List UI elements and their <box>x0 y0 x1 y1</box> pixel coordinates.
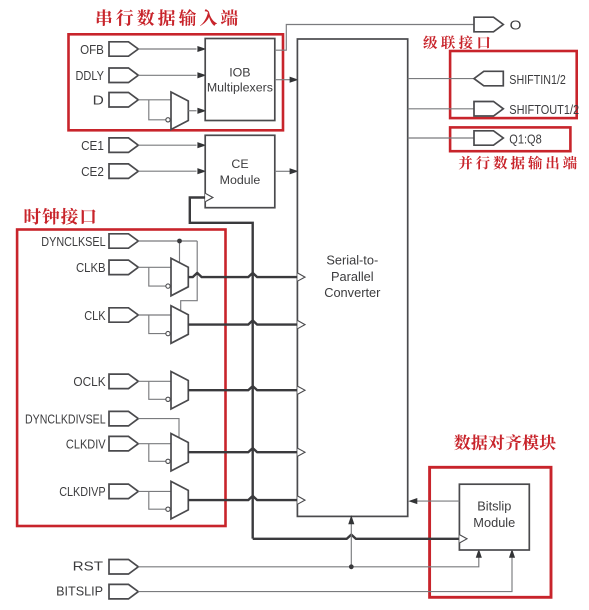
svg-text:RST: RST <box>73 559 103 574</box>
svg-text:Parallel: Parallel <box>331 269 374 284</box>
svg-text:Converter: Converter <box>324 285 381 300</box>
svg-text:CLK: CLK <box>84 308 106 323</box>
svg-text:Bitslip: Bitslip <box>477 499 511 514</box>
svg-text:SHIFTIN1/2: SHIFTIN1/2 <box>509 72 566 87</box>
svg-text:D: D <box>93 93 104 108</box>
svg-text:O: O <box>510 17 522 32</box>
svg-text:CLKB: CLKB <box>76 260 106 275</box>
svg-text:DDLY: DDLY <box>76 68 105 83</box>
svg-text:CLKDIVP: CLKDIVP <box>59 484 106 499</box>
svg-text:Serial-to-: Serial-to- <box>326 253 378 268</box>
svg-text:CLKDIV: CLKDIV <box>66 437 106 452</box>
svg-text:SHIFTOUT1/2: SHIFTOUT1/2 <box>509 102 579 117</box>
svg-text:Q1:Q8: Q1:Q8 <box>509 131 541 146</box>
svg-text:OCLK: OCLK <box>73 374 105 389</box>
svg-text:Module: Module <box>473 515 515 530</box>
svg-text:BITSLIP: BITSLIP <box>56 583 103 598</box>
svg-text:OFB: OFB <box>80 42 104 57</box>
svg-text:DYNCLKSEL: DYNCLKSEL <box>41 234 105 249</box>
svg-text:DYNCLKDIVSEL: DYNCLKDIVSEL <box>25 411 106 426</box>
svg-text:CE1: CE1 <box>81 138 104 153</box>
svg-text:IOB: IOB <box>229 66 250 80</box>
svg-text:Module: Module <box>220 173 261 187</box>
svg-text:CE: CE <box>231 157 248 171</box>
svg-text:CE2: CE2 <box>81 164 104 179</box>
svg-text:Multiplexers: Multiplexers <box>207 81 273 95</box>
